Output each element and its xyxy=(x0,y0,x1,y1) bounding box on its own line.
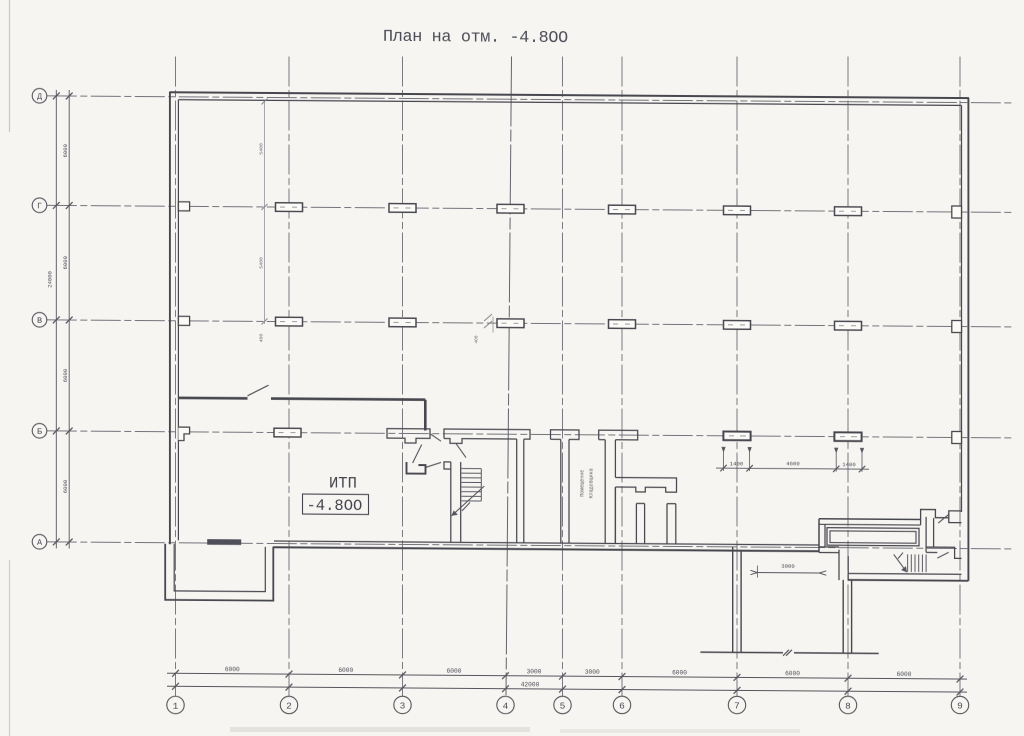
svg-text:6000: 6000 xyxy=(338,667,353,674)
svg-text:6000: 6000 xyxy=(62,143,69,157)
svg-text:А: А xyxy=(37,538,43,548)
svg-text:400: 400 xyxy=(474,335,480,343)
svg-text:4600: 4600 xyxy=(786,460,800,467)
svg-text:6: 6 xyxy=(619,701,625,712)
svg-text:3000: 3000 xyxy=(585,669,600,676)
svg-text:1: 1 xyxy=(173,701,179,712)
svg-text:2: 2 xyxy=(286,701,292,712)
svg-text:3: 3 xyxy=(400,701,406,712)
svg-text:-4.8ОО: -4.8ОО xyxy=(307,497,363,515)
svg-text:Г: Г xyxy=(37,201,42,211)
svg-text:ИТП: ИТП xyxy=(329,475,357,493)
svg-text:План на отм. -4.8ОО: План на отм. -4.8ОО xyxy=(383,28,568,48)
svg-text:9: 9 xyxy=(957,701,963,712)
svg-text:5: 5 xyxy=(560,701,566,712)
svg-text:4: 4 xyxy=(503,701,509,712)
svg-text:6000: 6000 xyxy=(62,255,69,269)
svg-text:Д: Д xyxy=(37,92,42,102)
svg-text:3000: 3000 xyxy=(527,668,542,675)
svg-text:24000: 24000 xyxy=(47,270,54,287)
svg-text:7: 7 xyxy=(734,701,740,712)
svg-text:42000: 42000 xyxy=(521,681,540,688)
svg-text:3000: 3000 xyxy=(781,563,795,570)
svg-text:6000: 6000 xyxy=(225,666,240,673)
svg-text:1400: 1400 xyxy=(730,460,744,467)
svg-text:1400: 1400 xyxy=(842,461,856,468)
svg-text:6000: 6000 xyxy=(62,368,69,382)
svg-text:6000: 6000 xyxy=(447,668,462,675)
svg-text:400: 400 xyxy=(259,333,265,342)
svg-text:Б: Б xyxy=(37,427,42,437)
svg-text:6000: 6000 xyxy=(897,671,912,678)
svg-text:5400: 5400 xyxy=(259,257,265,269)
svg-text:Кладовщика: Кладовщика xyxy=(589,468,595,498)
svg-text:Помещение: Помещение xyxy=(580,470,586,497)
svg-text:5400: 5400 xyxy=(259,143,265,155)
svg-text:6000: 6000 xyxy=(62,479,69,493)
svg-text:8: 8 xyxy=(845,701,851,712)
svg-text:6000: 6000 xyxy=(672,669,687,676)
svg-text:В: В xyxy=(37,316,42,326)
svg-text:6000: 6000 xyxy=(785,670,800,677)
